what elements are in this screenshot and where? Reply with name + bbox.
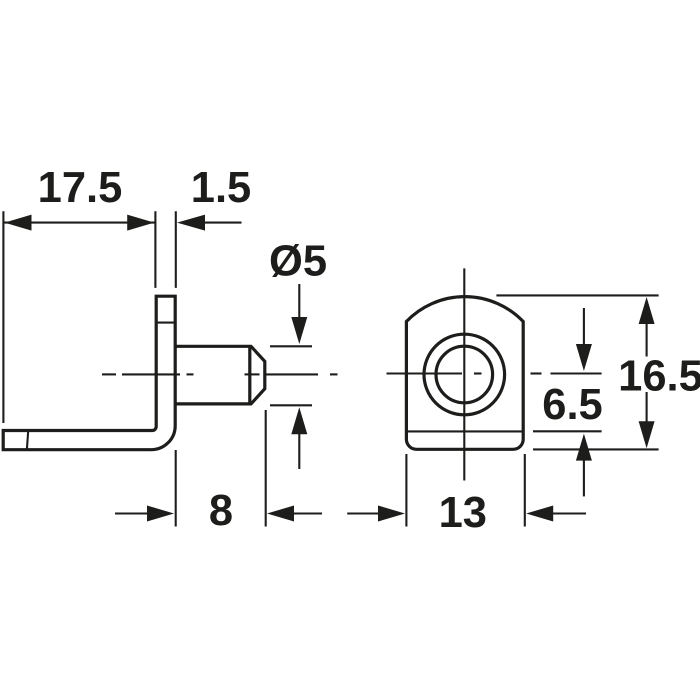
svg-text:13: 13: [439, 489, 487, 537]
svg-text:1.5: 1.5: [191, 164, 251, 212]
svg-text:8: 8: [209, 487, 233, 535]
svg-text:Ø5: Ø5: [269, 238, 327, 286]
svg-text:16.5: 16.5: [618, 353, 700, 401]
svg-text:6.5: 6.5: [542, 381, 602, 429]
svg-text:17.5: 17.5: [38, 164, 123, 212]
